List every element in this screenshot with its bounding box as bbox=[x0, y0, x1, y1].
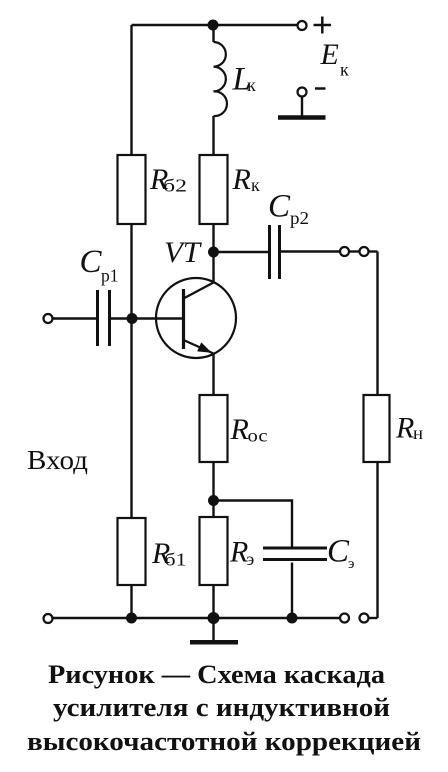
label Rb1 bbox=[151, 537, 187, 570]
wire inductor top stem bbox=[212, 25, 214, 42]
node rail ground bbox=[208, 612, 220, 624]
inductor Lk bbox=[214, 42, 227, 116]
label Cp1 bbox=[80, 244, 119, 286]
resistor Rk bbox=[200, 155, 228, 224]
label Ce bbox=[327, 534, 354, 573]
wire ground stem bbox=[212, 618, 214, 641]
svg-text:R: R bbox=[395, 412, 414, 445]
resistor Roc bbox=[200, 395, 228, 462]
svg-text:б1: б1 bbox=[165, 550, 187, 570]
svg-text:р1: р1 bbox=[101, 266, 119, 286]
wire between out terminals bbox=[349, 250, 360, 252]
terminal out bottom 2 bbox=[360, 614, 369, 623]
wire Re to rail bbox=[212, 585, 214, 618]
minus sign bbox=[315, 87, 326, 90]
wire bottom rail bbox=[53, 617, 341, 619]
wire bottom rail right bbox=[369, 617, 378, 619]
svg-text:R: R bbox=[229, 536, 248, 569]
svg-text:C: C bbox=[268, 189, 291, 225]
svg-text:р2: р2 bbox=[290, 208, 309, 228]
svg-text:C: C bbox=[327, 534, 350, 570]
svg-text:Рисунок — Схема каскада: Рисунок — Схема каскада bbox=[48, 660, 385, 689]
wire left branch lower bbox=[130, 585, 132, 618]
wire top rail bbox=[132, 24, 298, 26]
wire collector bbox=[212, 252, 214, 283]
svg-text:R: R bbox=[230, 413, 249, 446]
svg-text:ос: ос bbox=[248, 426, 268, 446]
resistor Rn bbox=[364, 395, 390, 462]
svg-text:E: E bbox=[320, 38, 339, 71]
terminal - Ek bbox=[298, 88, 307, 97]
resistor Re bbox=[200, 517, 228, 585]
wire Cp1 to base bbox=[111, 317, 184, 319]
resistor Rb2 bbox=[118, 155, 146, 224]
label Cp2 bbox=[268, 189, 309, 229]
label Lk bbox=[232, 62, 257, 98]
wire Cp2 to out terminal bbox=[281, 250, 340, 252]
label Ek bbox=[320, 38, 350, 80]
wire out terminal to corner bbox=[369, 250, 378, 252]
label Rk bbox=[232, 163, 261, 196]
plus sign bbox=[314, 17, 332, 34]
node base bbox=[127, 313, 138, 324]
wire Rn branch lower bbox=[376, 462, 378, 618]
wire Rn branch upper bbox=[376, 252, 378, 396]
svg-text:C: C bbox=[80, 244, 103, 280]
capacitor Cp1 bbox=[98, 290, 110, 346]
label Rb2 bbox=[149, 163, 187, 196]
svg-text:э: э bbox=[348, 556, 354, 572]
terminal input bbox=[44, 314, 53, 323]
node rail Ce bbox=[287, 613, 298, 624]
label Re bbox=[229, 536, 255, 570]
wire input to Cp1 bbox=[53, 317, 97, 319]
wire emitter to Roc bbox=[212, 354, 214, 396]
wire node to Ce branch bbox=[214, 501, 293, 549]
node Roc-Re bbox=[208, 495, 219, 506]
wire minus terminal stem bbox=[301, 97, 303, 117]
ground bbox=[190, 640, 238, 645]
terminal out bottom 1 bbox=[340, 614, 349, 623]
transistor VT bbox=[156, 278, 236, 358]
wire left branch upper bbox=[130, 25, 132, 155]
svg-text:б2: б2 bbox=[163, 176, 187, 196]
svg-text:R: R bbox=[232, 163, 251, 196]
terminal out top 2 bbox=[360, 247, 369, 256]
terminal out top 1 bbox=[340, 247, 349, 256]
resistor Rb1 bbox=[118, 518, 146, 585]
svg-text:Вход: Вход bbox=[27, 445, 88, 475]
svg-text:к: к bbox=[340, 60, 349, 80]
svg-text:н: н bbox=[413, 423, 423, 443]
wire Roc to node bbox=[212, 462, 214, 517]
label Rn bbox=[395, 412, 423, 445]
capacitor Ce bbox=[263, 548, 327, 560]
label Roc bbox=[230, 413, 268, 446]
svg-text:к: к bbox=[251, 175, 260, 195]
node top rail bbox=[208, 20, 219, 31]
wire Rk to collector node bbox=[212, 224, 214, 252]
wire collector node to Cp2 bbox=[214, 251, 269, 253]
svg-text:усилителя с индуктивной: усилителя с индуктивной bbox=[53, 693, 390, 722]
wire left branch middle bbox=[130, 224, 132, 518]
svg-text:к: к bbox=[247, 75, 256, 95]
svg-text:VT: VT bbox=[164, 236, 202, 269]
wire inductor to Rk bbox=[212, 116, 214, 155]
terminal bottom left bbox=[44, 614, 53, 623]
svg-text:э: э bbox=[247, 549, 255, 569]
terminal + Ek bbox=[298, 21, 307, 30]
capacitor Cp2 bbox=[270, 225, 280, 279]
svg-text:высокочастотной коррекцией: высокочастотной коррекцией bbox=[27, 727, 421, 756]
power bar (minus of Ek) bbox=[278, 115, 326, 120]
node collector bbox=[208, 247, 219, 258]
node rail Rb1 bbox=[126, 613, 137, 624]
wire Ce to rail bbox=[291, 563, 293, 619]
